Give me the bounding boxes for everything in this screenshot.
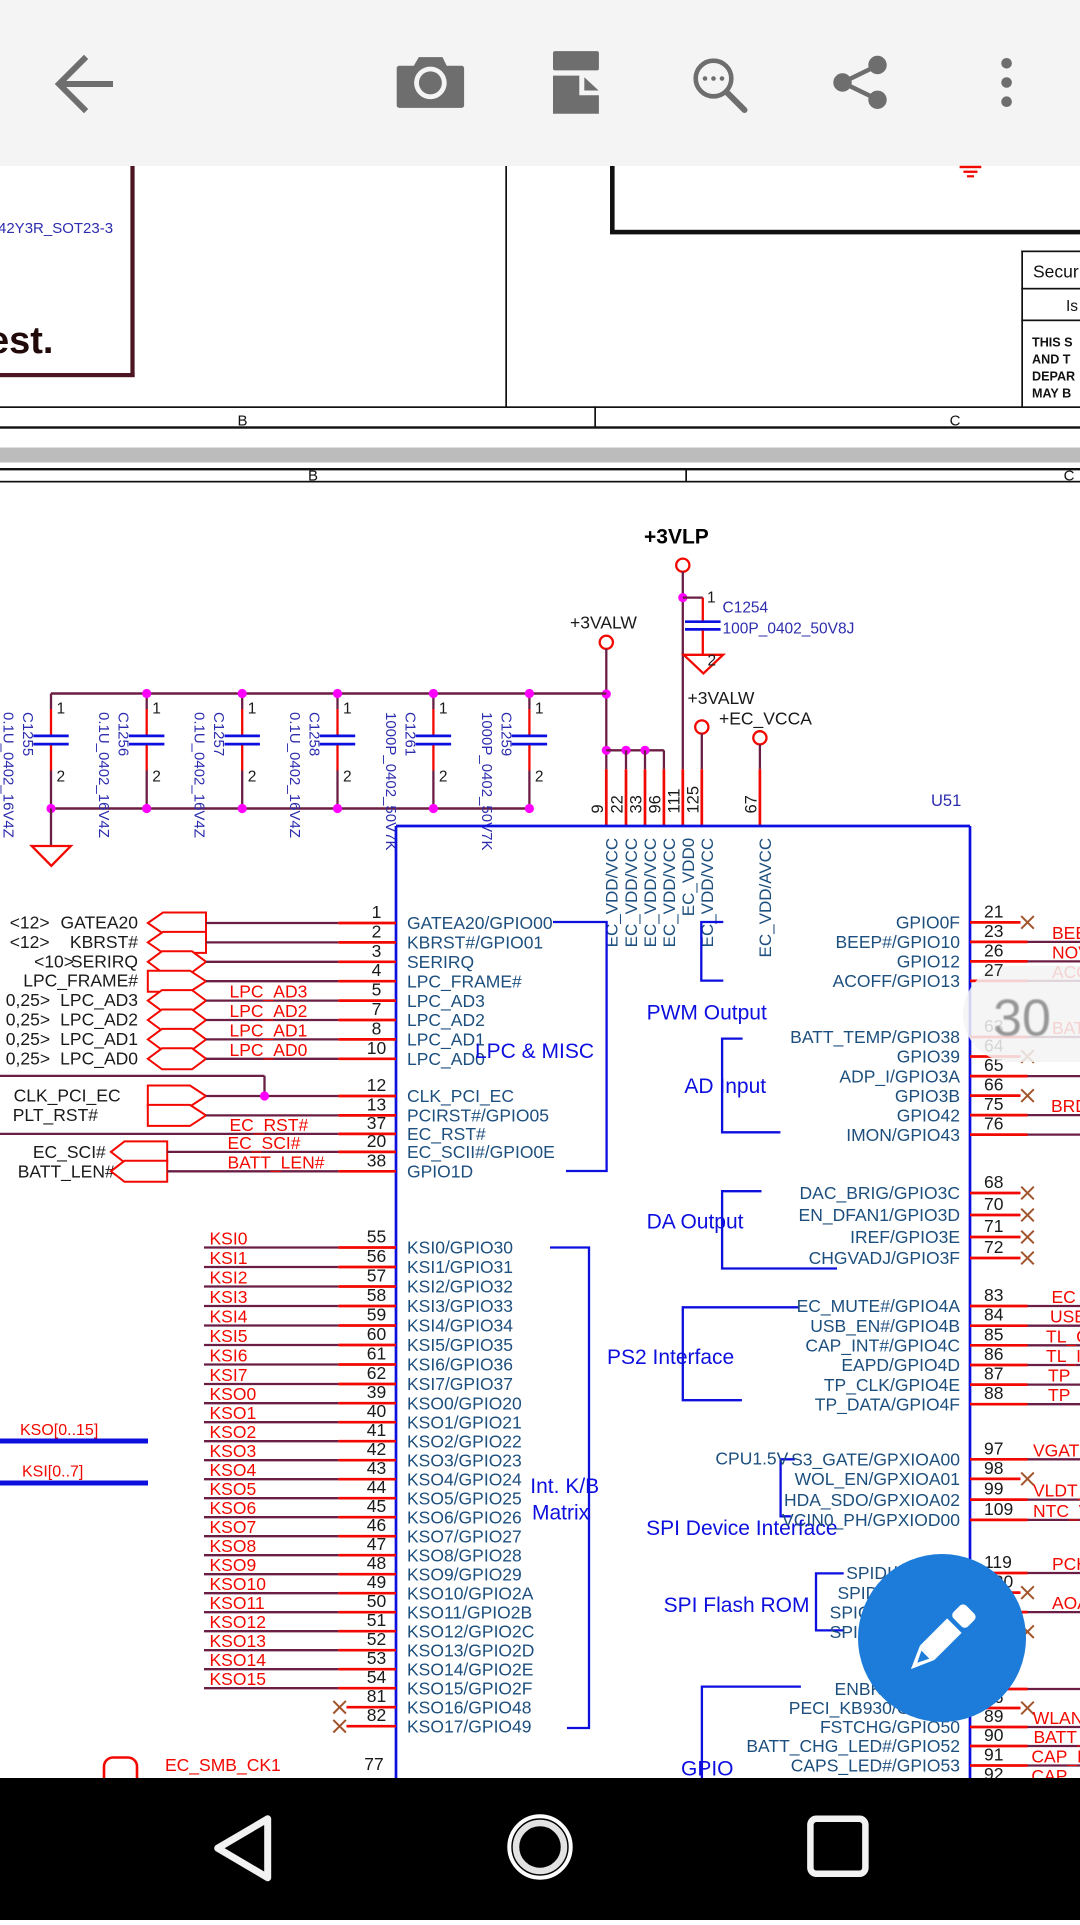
floating edit button (858, 1554, 1026, 1722)
svg-text:KSI5/GPIO35: KSI5/GPIO35 (407, 1335, 513, 1355)
svg-text:CAP_L: CAP_L (1031, 1747, 1080, 1768)
off-page connector flag for LPC_AD2 (148, 1010, 206, 1031)
wire pin 60 (KSI5/GPIO35) (204, 1344, 338, 1346)
svg-text:KSO6/GPIO26: KSO6/GPIO26 (407, 1507, 522, 1527)
svg-text:LPC_AD2: LPC_AD2 (407, 1010, 485, 1031)
pin stub 12 (338, 1095, 396, 1098)
svg-text:KSO4/GPIO24: KSO4/GPIO24 (407, 1469, 522, 1489)
pin stub 121 right (970, 1611, 1028, 1614)
bracket GPIO group (702, 1687, 801, 1778)
svg-text:C1261: C1261 (401, 712, 418, 756)
wire junction to C1254 (683, 596, 703, 598)
pin stub 61 (338, 1363, 396, 1366)
power pin stub 111 (681, 769, 684, 826)
junction top rail at C1258 (333, 689, 342, 698)
svg-text:DAC_BRIG/GPIO3C: DAC_BRIG/GPIO3C (800, 1183, 960, 1204)
pin stub 122 right (NC) (970, 1630, 1021, 1633)
wire pin 13 (PCIRST#/GPIO05) (206, 1114, 338, 1116)
svg-text:GPIO42: GPIO42 (897, 1105, 960, 1125)
wire pin bus horizontal (606, 749, 664, 751)
power pin stub 33 (644, 769, 647, 826)
toolbar share icon (834, 56, 886, 108)
junction top rail at C1259 (525, 689, 534, 698)
svg-text:KSI4/GPIO34: KSI4/GPIO34 (407, 1316, 513, 1336)
wire pin 52 (KSO13/GPIO2D) (204, 1649, 338, 1651)
svg-text:85: 85 (984, 1324, 1003, 1344)
svg-text:CAP_INT#/GPIO4C: CAP_INT#/GPIO4C (805, 1336, 960, 1357)
svg-text:KSO14/GPIO2E: KSO14/GPIO2E (407, 1659, 533, 1679)
pin stub 97 right (970, 1458, 1028, 1461)
bracket DA Output group (722, 1191, 837, 1268)
svg-text:10: 10 (367, 1038, 387, 1058)
svg-text:2: 2 (439, 769, 448, 786)
off-page connector flag for CLK_PCI_EC (148, 1086, 206, 1107)
svg-text:EC_VDD0: EC_VDD0 (679, 838, 698, 916)
svg-text:PS2 Interface: PS2 Interface (607, 1346, 734, 1369)
svg-text:9: 9 (589, 804, 607, 813)
nav back icon (218, 1819, 268, 1878)
svg-text:KSO16/GPIO48: KSO16/GPIO48 (407, 1697, 532, 1717)
svg-text:TL_I: TL_I (1046, 1346, 1080, 1367)
bracket CPU1.5V group (781, 1459, 795, 1516)
svg-text:61: 61 (367, 1344, 386, 1364)
U51 top edge (396, 825, 970, 828)
svg-text:C1254: C1254 (723, 600, 769, 617)
svg-text:100P_0402_50V8J: 100P_0402_50V8J (723, 621, 855, 638)
pin stub 7 (338, 1019, 396, 1022)
svg-text:GPIO: GPIO (681, 1758, 734, 1781)
pin stub 13 (338, 1114, 396, 1117)
wire pin 56 (KSI1/GPIO31) (204, 1266, 338, 1268)
feeder wire horizontal (0, 1075, 265, 1077)
wire GPIO42 to right edge (1028, 1114, 1080, 1116)
wire pin 10 (LPC_AD0) (206, 1058, 338, 1060)
svg-text:EC_SCI#: EC_SCI# (33, 1142, 106, 1163)
svg-text:KSO12/GPIO2C: KSO12/GPIO2C (407, 1621, 534, 1641)
pin stub 47 (338, 1554, 396, 1557)
power node circle +3VALW (2) (695, 720, 708, 733)
svg-text:KSO2/GPIO22: KSO2/GPIO22 (407, 1431, 522, 1451)
svg-text:0,25>: 0,25> (6, 1010, 50, 1030)
no-connect cross at GPIO3B (1021, 1089, 1034, 1102)
svg-text:<12>: <12> (10, 913, 50, 933)
cap bank bottom rail wire (51, 807, 529, 809)
svg-text:0.1U_0402_16V4Z: 0.1U_0402_16V4Z (0, 712, 17, 838)
svg-text:KSO15: KSO15 (210, 1669, 266, 1689)
svg-text:53: 53 (367, 1648, 386, 1668)
ground symbol cap bank (32, 846, 71, 866)
svg-text:VGATE: VGATE (1033, 1440, 1080, 1460)
svg-text:CAPS_LED#/GPIO53: CAPS_LED#/GPIO53 (791, 1756, 960, 1777)
svg-text:NTC_V: NTC_V (1033, 1501, 1080, 1522)
capacitor C1254 plates (685, 622, 721, 630)
pin stub 14 right (970, 1688, 1028, 1691)
pin stub 56 (338, 1266, 396, 1269)
pin stub 65 right (970, 1075, 1028, 1078)
svg-text:88: 88 (984, 1383, 1003, 1403)
svg-text:C1258: C1258 (306, 712, 323, 756)
capacitor C1254 pin 2 lead (702, 631, 704, 655)
power node circle +3VALW (600, 636, 613, 649)
svg-text:KBRST#: KBRST# (70, 932, 138, 952)
svg-text:BATT_CHG_LED#/GPIO52: BATT_CHG_LED#/GPIO52 (746, 1736, 960, 1757)
capacitor C1258 (0.1U_0402_16V4Z) (286, 694, 355, 838)
svg-text:PCIRST#/GPIO05: PCIRST#/GPIO05 (407, 1106, 549, 1126)
pin stub 39 (338, 1402, 396, 1405)
svg-text:KSO4: KSO4 (210, 1460, 257, 1480)
svg-text:33: 33 (628, 795, 646, 813)
svg-text:CPU1.5V: CPU1.5V (715, 1449, 788, 1469)
junction bottom rail at C1261 (429, 804, 438, 813)
prev-sheet outer border line (0, 426, 1080, 428)
svg-text:KSO13: KSO13 (210, 1631, 266, 1651)
junction pin bus 33 (640, 746, 649, 755)
svg-text:KSO9/GPIO29: KSO9/GPIO29 (407, 1564, 522, 1584)
capacitor C1261 (1000P_0402_50V7K) (382, 694, 451, 851)
svg-text:KSI6/GPIO36: KSI6/GPIO36 (407, 1355, 513, 1375)
junction +3VALW / cap rail (602, 689, 611, 698)
svg-text:KSO1/GPIO21: KSO1/GPIO21 (407, 1412, 522, 1432)
svg-text:KSO8/GPIO28: KSO8/GPIO28 (407, 1545, 522, 1565)
svg-text:EC: EC (1052, 1287, 1076, 1307)
svg-text:KSO8: KSO8 (210, 1536, 257, 1556)
svg-text:20: 20 (367, 1131, 387, 1151)
nav recents icon (810, 1819, 865, 1874)
svg-text:57: 57 (367, 1266, 386, 1286)
pin stub 10 (338, 1057, 396, 1060)
svg-text:LPC_AD3: LPC_AD3 (407, 991, 485, 1012)
svg-text:IMON/GPIO43: IMON/GPIO43 (846, 1125, 960, 1145)
pin stub 64 right (NC) (970, 1055, 1021, 1058)
no-connect cross at EN_DFAN1/GPIO3D (1021, 1209, 1034, 1222)
pin stub 49 (338, 1592, 396, 1595)
svg-text:C1259: C1259 (497, 712, 514, 756)
svg-text:82: 82 (367, 1705, 386, 1725)
no-connect cross at PECI_KB930/GPIO45 (1021, 1702, 1034, 1715)
wire bus drop pin33 (644, 750, 646, 769)
svg-text:TP_DATA/GPIO4F: TP_DATA/GPIO4F (815, 1394, 960, 1415)
toolbar overflow menu icon (1001, 58, 1012, 107)
svg-text:3: 3 (372, 941, 382, 961)
off-page connector flag for SERIRQ (148, 951, 206, 972)
svg-text:109: 109 (984, 1499, 1013, 1519)
svg-text:0,25>: 0,25> (6, 1048, 50, 1068)
svg-text:est.: est. (0, 320, 53, 362)
pin stub 91 right (970, 1764, 1028, 1767)
pin stub 92 right (970, 1784, 1028, 1787)
off-page connector flag for KBRST#/GPIO01 (148, 932, 206, 953)
wire TP_CLK/GPIO4E to right edge (1028, 1383, 1080, 1385)
off-page connector flag for GPIO1D (111, 1161, 167, 1182)
svg-text:C1257: C1257 (210, 712, 227, 756)
svg-text:IREF/GPIO3E: IREF/GPIO3E (850, 1227, 960, 1247)
wire pin 20 (EC_SCII#/GPIO0E) (167, 1151, 338, 1153)
svg-text:EC_VDD/VCC: EC_VDD/VCC (602, 838, 621, 948)
pin stub 58 (338, 1305, 396, 1308)
svg-text:LPC_AD1: LPC_AD1 (230, 1020, 308, 1041)
wire pin 55 (KSI0/GPIO30) (204, 1246, 338, 1248)
svg-text:KSI5: KSI5 (210, 1326, 248, 1346)
svg-text:91: 91 (984, 1745, 1003, 1765)
pin stub 41 (338, 1440, 396, 1443)
svg-text:2: 2 (372, 921, 382, 941)
signal ground symbol (red) (960, 166, 982, 178)
svg-text:KSI7/GPIO37: KSI7/GPIO37 (407, 1374, 513, 1394)
bracket PWM Output group (701, 922, 723, 981)
wire pin 37 (EC_RST#) (0, 1133, 338, 1135)
svg-text:77: 77 (364, 1754, 383, 1774)
pin stub 89 right (970, 1726, 1028, 1729)
svg-text:86: 86 (984, 1344, 1003, 1364)
svg-text:KSI6: KSI6 (210, 1346, 248, 1366)
junction +3VALW / pin bus (602, 746, 611, 755)
svg-text:HDA_SDO/GPXIOA02: HDA_SDO/GPXIOA02 (784, 1490, 960, 1511)
svg-text:7: 7 (372, 999, 382, 1019)
title block top border (1021, 251, 1080, 253)
wire pin 40 (KSO1/GPIO21) (204, 1421, 338, 1423)
svg-text:2: 2 (708, 653, 717, 670)
svg-text:EN_DFAN1/GPIO3D: EN_DFAN1/GPIO3D (799, 1205, 960, 1226)
pin stub 40 (338, 1421, 396, 1424)
sheet zone divider tick (685, 468, 687, 483)
capacitor C1257 (0.1U_0402_16V4Z) (191, 694, 260, 838)
svg-text:BRD: BRD (1051, 1096, 1080, 1116)
svg-text:USB: USB (1050, 1307, 1080, 1327)
svg-text:48: 48 (367, 1553, 386, 1573)
U51 right edge (969, 826, 972, 1778)
wire BATT_TEMP/GPIO38 to right edge (1028, 1036, 1080, 1038)
wire pin 39 (KSO0/GPIO20) (204, 1402, 338, 1404)
off-page connector flag for LPC_AD3 (148, 990, 206, 1011)
sheet outer border line (0, 468, 1080, 470)
svg-text:KSO[0..15]: KSO[0..15] (20, 1422, 98, 1439)
wire VCIN0_PH/GPXIOD00 to right edge (1028, 1519, 1080, 1521)
svg-text:KSO12: KSO12 (210, 1612, 266, 1632)
svg-text:89: 89 (984, 1706, 1003, 1726)
svg-text:42: 42 (367, 1439, 386, 1459)
svg-text:KSO7: KSO7 (210, 1517, 257, 1537)
wire pin 57 (KSI2/GPIO32) (204, 1285, 338, 1287)
svg-text:12: 12 (367, 1075, 386, 1095)
svg-text:PWM Output: PWM Output (647, 1002, 767, 1025)
svg-text:2: 2 (535, 769, 544, 786)
pin stub 70 right (NC) (970, 1214, 1021, 1217)
pin stub 48 (338, 1573, 396, 1576)
svg-text:KSO14: KSO14 (210, 1650, 267, 1670)
title block left border (1021, 251, 1023, 408)
capacitor C1259 (1000P_0402_50V7K) (478, 694, 547, 851)
svg-text:Is: Is (1066, 298, 1078, 315)
pin stub 87 right (970, 1383, 1028, 1386)
junction top rail at C1257 (238, 689, 247, 698)
svg-text:98: 98 (984, 1458, 1003, 1478)
svg-text:111: 111 (665, 788, 683, 813)
svg-text:EC_VDD/VCC: EC_VDD/VCC (641, 838, 660, 948)
wire pin 54 (KSO15/GPIO2F) (204, 1687, 338, 1689)
svg-text:8: 8 (372, 1018, 382, 1038)
svg-text:TP: TP (1048, 1385, 1070, 1405)
pin stub 16 right (NC) (970, 1707, 1021, 1710)
ground lead from bottom rail (50, 809, 52, 846)
svg-text:WOL_EN/GPXIOA01: WOL_EN/GPXIOA01 (795, 1469, 960, 1490)
svg-text:KSO11/GPIO2B: KSO11/GPIO2B (407, 1602, 532, 1622)
svg-text:KSO11: KSO11 (210, 1593, 265, 1613)
svg-text:LPC_AD2: LPC_AD2 (230, 1001, 308, 1022)
wire pin 51 (KSO12/GPIO2C) (204, 1630, 338, 1632)
no-connect cross at DAC_BRIG/GPIO3C (1021, 1187, 1034, 1200)
pin stub 90 right (970, 1745, 1028, 1748)
svg-text:39: 39 (367, 1382, 386, 1402)
junction bottom rail at C1257 (238, 804, 247, 813)
svg-text:KSI3: KSI3 (210, 1287, 248, 1307)
wire USB_EN#/GPIO4B to right edge (1028, 1325, 1080, 1327)
no-connect cross pin 81 (333, 1701, 346, 1714)
svg-text:EC_VDD/AVCC: EC_VDD/AVCC (756, 838, 775, 958)
pin stub 88 right (970, 1403, 1028, 1406)
sheet inner border line (0, 481, 1080, 483)
off-page connector flag for LPC_FRAME# (148, 971, 206, 992)
svg-text:1000P_0402_50V7K: 1000P_0402_50V7K (478, 712, 495, 850)
svg-text:LPC_FRAME#: LPC_FRAME# (23, 971, 138, 992)
svg-text:GATEA20/GPIO00: GATEA20/GPIO00 (407, 913, 553, 933)
svg-text:KSO5/GPIO25: KSO5/GPIO25 (407, 1488, 522, 1508)
wire +3VALW vertical (605, 649, 607, 769)
svg-text:125: 125 (684, 786, 702, 814)
wire SPICLK/GPIO73 to right edge (1028, 1611, 1080, 1613)
wire pin 59 (KSI4/GPIO34) (204, 1324, 338, 1326)
svg-text:DA Output: DA Output (647, 1211, 744, 1234)
svg-text:KSO0: KSO0 (210, 1384, 257, 1404)
svg-text:1: 1 (57, 701, 66, 718)
wire pin 42 (KSO3/GPIO23) (204, 1459, 338, 1461)
off-page connector flag for GATEA20/GPIO00 (148, 913, 206, 934)
svg-text:KSO3: KSO3 (210, 1441, 257, 1461)
page number bubble (963, 966, 1080, 1062)
svg-text:KSI0: KSI0 (210, 1229, 248, 1249)
wire GPIO12 to right edge (1028, 960, 1080, 962)
bracket AD Input group (722, 1039, 780, 1133)
svg-text:SPI Flash ROM: SPI Flash ROM (664, 1594, 810, 1617)
toolbar camera icon (397, 57, 464, 108)
svg-text:0.1U_0402_16V4Z: 0.1U_0402_16V4Z (95, 712, 112, 838)
wire bus drop pin96 (663, 750, 665, 769)
svg-text:U51: U51 (931, 792, 961, 810)
svg-text:26: 26 (984, 940, 1003, 960)
svg-text:1: 1 (439, 701, 448, 718)
svg-text:Int. K/B: Int. K/B (530, 1475, 599, 1498)
nav home icon (509, 1816, 570, 1877)
svg-text:2: 2 (152, 769, 161, 786)
svg-text:45: 45 (367, 1496, 386, 1516)
svg-text:S3_GATE/GPXIOA00: S3_GATE/GPXIOA00 (791, 1450, 960, 1471)
pin stub 84 right (970, 1324, 1028, 1327)
svg-text:AOA: AOA (1052, 1593, 1080, 1613)
pin stub 50 (338, 1611, 396, 1614)
capacitor C1255 (0.1U_0402_16V4Z) (0, 694, 69, 838)
wire pin 38 (GPIO1D) (167, 1170, 338, 1172)
svg-text:DEPAR: DEPAR (1032, 370, 1075, 384)
pin stub 43 (338, 1478, 396, 1481)
wire pin 7 (LPC_AD2) (206, 1019, 338, 1021)
prev-sheet block border horizontal (610, 230, 1080, 235)
svg-text:83: 83 (984, 1285, 1003, 1305)
svg-text:VCIN0_PH/GPXIOD00: VCIN0_PH/GPXIOD00 (782, 1510, 960, 1531)
svg-text:50: 50 (367, 1591, 387, 1611)
power node circle +3VLP (676, 559, 689, 572)
junction bottom rail at C1256 (142, 804, 151, 813)
svg-text:38: 38 (367, 1150, 386, 1170)
junction bottom rail at C1255 (46, 804, 55, 813)
no-connect cross at CHGVADJ/GPIO3F (1021, 1252, 1034, 1265)
svg-text:KSI[0..7]: KSI[0..7] (22, 1464, 83, 1481)
pin stub 60 (338, 1344, 396, 1347)
svg-text:KSI1: KSI1 (210, 1248, 248, 1268)
svg-text:EAPD/GPIO4D: EAPD/GPIO4D (841, 1355, 960, 1375)
pin stub 54 (338, 1687, 396, 1690)
svg-text:PCH: PCH (1052, 1554, 1080, 1574)
svg-text:KSI2: KSI2 (210, 1268, 248, 1288)
svg-text:KSO6: KSO6 (210, 1498, 257, 1518)
wire ENBKL/GPIO16 to right edge (1028, 1688, 1080, 1690)
wire +3VALW(2) vertical (701, 734, 703, 770)
wire pin 48 (KSO9/GPIO29) (204, 1573, 338, 1575)
svg-text:1: 1 (372, 902, 382, 922)
pin stub 83 right (970, 1305, 1028, 1308)
svg-text:KSI0/GPIO30: KSI0/GPIO30 (407, 1238, 513, 1258)
svg-text:49: 49 (367, 1572, 386, 1592)
svg-text:BATT_TEMP/GPIO38: BATT_TEMP/GPIO38 (790, 1027, 960, 1048)
svg-text:47: 47 (367, 1534, 386, 1554)
pin stub 82 (347, 1725, 397, 1728)
svg-text:84: 84 (984, 1305, 1004, 1325)
feeder wire vertical (263, 1076, 265, 1096)
ground symbol below C1254 (684, 655, 723, 674)
pin stub 72 right (NC) (970, 1257, 1021, 1260)
pin stub 66 right (NC) (970, 1094, 1021, 1097)
svg-text:22: 22 (609, 795, 627, 813)
power pin stub 67 (759, 769, 762, 826)
svg-text:43: 43 (367, 1458, 386, 1478)
wire pin 41 (KSO2/GPIO22) (204, 1440, 338, 1442)
pin stub 23 right (970, 941, 1028, 944)
page separator bar (0, 448, 1080, 463)
wire BEEP#/GPIO10 to right edge (1028, 941, 1080, 943)
cap bank top rail wire (51, 692, 606, 694)
pin stub 20 (338, 1151, 396, 1154)
svg-text:KSO10/GPIO2A: KSO10/GPIO2A (407, 1583, 534, 1603)
prev-sheet block border vertical (610, 166, 615, 234)
svg-text:46: 46 (367, 1515, 386, 1535)
svg-text:GPIO0F: GPIO0F (896, 913, 960, 933)
svg-text:AD Input: AD Input (684, 1075, 766, 1098)
toolbar background (0, 0, 1080, 166)
svg-text:AND T: AND T (1032, 353, 1071, 367)
power pin stub 96 (663, 769, 666, 826)
wire pin 50 (KSO11/GPIO2B) (204, 1611, 338, 1613)
wire NUM_LED#/GPIO54 to right edge (1028, 1784, 1080, 1786)
pin stub 38 (338, 1170, 396, 1173)
prev-sheet part box edge horizontal (0, 373, 135, 377)
pin stub 63 right (970, 1036, 1028, 1039)
svg-text:GPIO3B: GPIO3B (895, 1086, 960, 1106)
toolbar page-preview icon (553, 51, 599, 114)
no-connect cross at GPIO0F (1021, 916, 1034, 929)
pin stub 119 right (970, 1572, 1028, 1575)
wire pin 3 (SERIRQ) (206, 961, 338, 963)
wire EAPD/GPIO4D to right edge (1028, 1364, 1080, 1366)
svg-text:0.1U_0402_16V4Z: 0.1U_0402_16V4Z (286, 712, 303, 838)
pin stub 98 right (NC) (970, 1478, 1021, 1481)
